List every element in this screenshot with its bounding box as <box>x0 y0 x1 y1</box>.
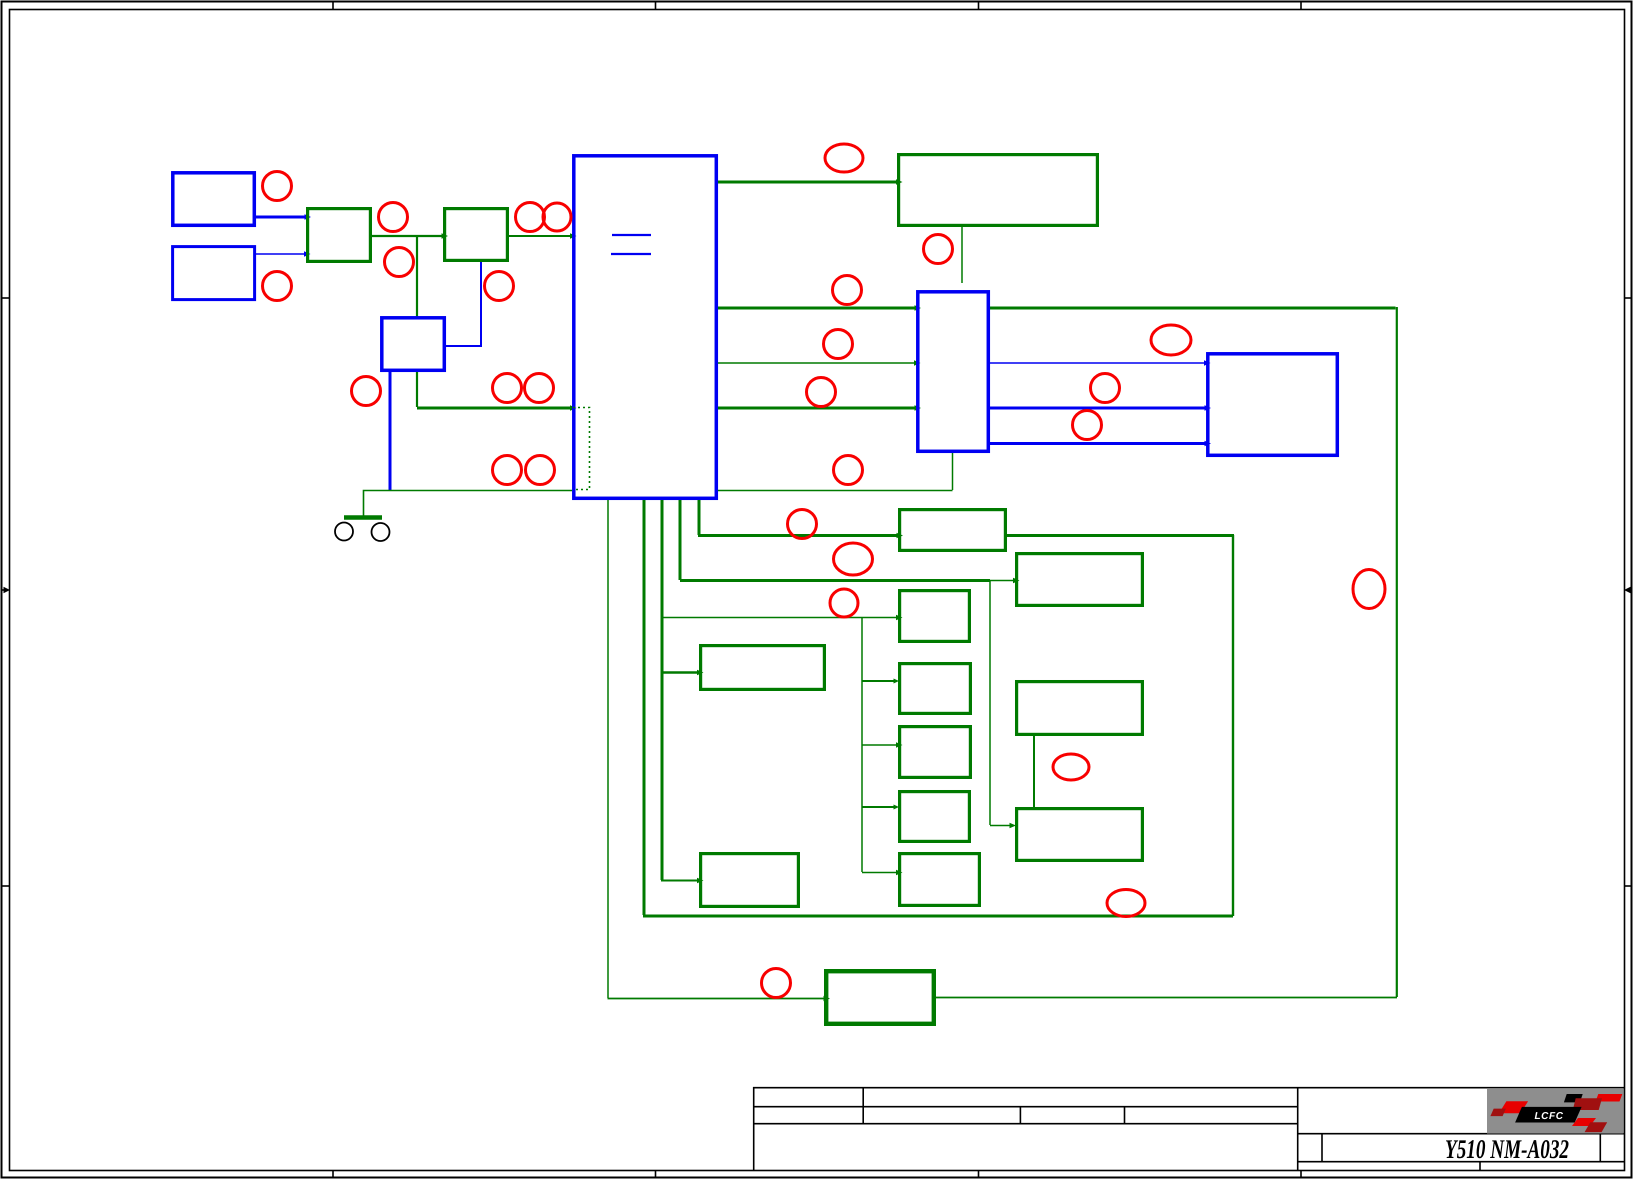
red highlight ellipse 20 <box>834 543 873 575</box>
wire E bottom down (blue) <box>389 372 392 491</box>
green box G4 <box>701 646 825 690</box>
wire mid to right box y407 (blue) <box>990 407 1206 410</box>
title block logo row bottom line <box>1298 1133 1625 1135</box>
green box D <box>445 209 508 261</box>
title block divider x1600 <box>1599 1134 1601 1162</box>
frame tick top 1 <box>332 2 334 10</box>
stub x862 to G5 (green) <box>862 680 895 682</box>
logo black LCFC parallelogram <box>1515 1107 1582 1123</box>
red highlight circle 19 <box>788 510 817 539</box>
main chip (large blue box) <box>574 156 717 499</box>
red highlight circle 3 <box>379 203 408 232</box>
frame tick top 2 <box>655 2 657 10</box>
red highlight circle 4 <box>385 248 414 277</box>
wire y617 to G3 (green thin) <box>662 617 898 619</box>
stub x990 to G9 (green, arrow) <box>990 825 1010 827</box>
red highlight circle 21 <box>830 589 858 617</box>
green box G11 <box>900 854 980 906</box>
wire mid box to right loop y308 (green) <box>990 307 1396 310</box>
frame tick right 1 <box>1625 297 1633 299</box>
logo red parallelogram lower mid <box>1572 1118 1596 1126</box>
wire y535 to G1 (green) <box>698 534 898 537</box>
red highlight circle 2 <box>263 272 292 301</box>
wire chip to mid box thin y363 (green) <box>718 362 916 364</box>
wire through E down (green) <box>416 372 418 407</box>
frame tick bottom 2 <box>655 1171 657 1178</box>
stub x862 to G11 (green) <box>862 872 898 874</box>
green box G5 <box>900 664 971 714</box>
wire D to chip (green) <box>509 235 572 237</box>
red highlight circle 1 <box>263 172 292 201</box>
red highlight circle 16 <box>1091 374 1120 403</box>
frame tick bottom 1 <box>332 1171 334 1178</box>
title block text row bottom line <box>1298 1161 1625 1163</box>
green box G9 <box>1017 809 1143 861</box>
chip bottom vertical x608 (green thin) <box>607 500 609 998</box>
loop bottom right segment (green) <box>936 997 1397 999</box>
red highlight circle pair 7a <box>516 203 545 232</box>
wire D bottom to E right (blue) <box>446 262 481 346</box>
red highlight circle pair 8b <box>525 374 554 403</box>
blue mid box <box>918 292 989 452</box>
wire y580 to G2 (green) <box>680 579 990 582</box>
green box G8 <box>1017 682 1143 735</box>
frame tick left 1 <box>2 297 10 299</box>
frame tick top 4 <box>1300 2 1302 10</box>
red highlight circle 17 <box>1073 411 1102 440</box>
chip bottom vertical x644 + inner loop bottom (green) <box>643 500 646 915</box>
title block divider x863 <box>862 1087 864 1124</box>
connector G8 to G9 (green) <box>1033 736 1035 807</box>
frame tick left 2 <box>2 885 10 887</box>
green box bottom (battery) <box>826 971 934 1024</box>
logo dark red parallelogram right <box>1573 1098 1602 1110</box>
vertical x862 (green thin) <box>861 617 863 872</box>
wire chip to top green box (green) <box>718 181 898 184</box>
blue box B (below A) <box>173 247 255 300</box>
red highlight ellipse 23 <box>1053 754 1089 780</box>
stub x662 to G4 (green) <box>662 671 698 673</box>
frame tick bottom 4 <box>1300 1171 1302 1178</box>
red highlight circle pair 8a <box>493 374 522 403</box>
red highlight ellipse 24 <box>1107 890 1145 917</box>
logo dark red parallelogram lower right <box>1585 1122 1608 1132</box>
stub x862 to G6 (green) <box>862 744 898 746</box>
title block divider x1124 <box>1124 1107 1126 1124</box>
svg-text:LCFC: LCFC <box>1534 1111 1563 1122</box>
blue box right <box>1208 354 1338 456</box>
svg-text:Y510 NM-A032: Y510 NM-A032 <box>1445 1134 1569 1164</box>
stub mid box bottom (green) <box>952 453 954 490</box>
bottom wire y998 left segment (green) <box>608 998 825 1000</box>
red highlight ellipse 14 <box>1151 325 1191 355</box>
wire mid to right box thin y363 (blue) <box>990 362 1206 364</box>
chip bottom vertical x699 (green) <box>698 500 701 535</box>
green box G10 <box>701 854 799 907</box>
logo red parallelogram left <box>1499 1101 1528 1113</box>
loop right vertical (green) <box>1396 307 1398 997</box>
wire junction down to E (green vertical) <box>416 236 418 317</box>
red highlight circle 5 <box>485 272 514 301</box>
green box G7 <box>900 792 970 842</box>
chip equal-sign mark line 2 <box>611 253 651 255</box>
stub from top green box down (green) <box>961 227 963 283</box>
frame tick top 3 <box>978 2 980 10</box>
title block row line 1 left <box>753 1106 1298 1108</box>
green box top-right <box>899 155 1098 226</box>
inner loop right vertical (green) <box>1232 535 1234 916</box>
red highlight circle pair 7b <box>543 203 571 231</box>
wire A to C (blue thick) <box>256 216 306 219</box>
frame arrow left <box>2 589 5 591</box>
title block left edge <box>753 1087 755 1170</box>
title block outline top <box>753 1087 1625 1089</box>
frame tick bottom 3 <box>978 1171 980 1178</box>
red highlight circle 15 <box>807 378 836 407</box>
red highlight circle pair 9b <box>526 456 555 485</box>
wire E to chip at y407 (green) <box>417 407 572 410</box>
red highlight circle 25 <box>762 969 791 998</box>
title block divider x1020 <box>1019 1107 1021 1124</box>
stub x862 to G7 (green) <box>862 806 895 808</box>
chip equal-sign mark line 1 <box>612 234 651 236</box>
dotted highlight box on chip lower-left <box>573 408 590 490</box>
logo black parallelogram top <box>1564 1094 1583 1102</box>
red highlight circle 13 <box>824 330 853 359</box>
wire mid to right box y443 (blue) <box>990 442 1206 445</box>
red highlight circle pair 9a <box>493 456 522 485</box>
stub x662 to G10 (green) <box>661 880 699 882</box>
wire ground run to chip (green) <box>364 491 573 517</box>
green box G6 <box>900 727 971 778</box>
chip bottom vertical x680 (green) <box>679 500 682 580</box>
ground pad circle 1 (black) <box>335 523 353 541</box>
red highlight ellipse 22 (tall) <box>1353 570 1385 609</box>
wire chip to mid box y407 (green) <box>718 407 916 410</box>
green box G3 <box>900 591 970 642</box>
logo red parallelogram top right <box>1596 1094 1623 1102</box>
blue box E <box>382 318 445 371</box>
red highlight circle 6 <box>352 377 381 406</box>
LCFC logo gray background <box>1487 1089 1624 1134</box>
green box G1 <box>900 510 1006 551</box>
red highlight circle 12 <box>833 276 862 305</box>
title block divider x1480 bottom row <box>1479 1162 1481 1171</box>
green box G2 <box>1017 554 1143 606</box>
frame tick right 2 <box>1625 885 1633 887</box>
title block divider x1322 <box>1321 1134 1323 1162</box>
wire B to C (blue thin) <box>256 253 306 255</box>
vertical x990 (green thin) <box>989 580 991 825</box>
blue box A (top-left) <box>173 173 255 226</box>
frame arrow right <box>1630 589 1633 591</box>
ground bar <box>344 515 382 520</box>
inner loop top segment to G1 (green) <box>1007 534 1234 537</box>
chip bottom vertical x662 (green) <box>661 500 664 880</box>
green box C <box>308 209 371 262</box>
ground pad circle 2 (black) <box>372 523 390 541</box>
title block center divider <box>1297 1087 1299 1170</box>
wire chip to mid box y308 (green) <box>718 307 916 310</box>
red highlight circle 10 <box>924 235 953 264</box>
wire C to D (green) <box>372 235 443 237</box>
title block row line 2 left <box>753 1123 1298 1125</box>
logo dark red parallelogram left <box>1490 1109 1506 1117</box>
red highlight ellipse 11 <box>825 144 863 172</box>
red highlight circle 18 <box>834 456 863 485</box>
wire mid box bottom to chip y490 (green) <box>718 490 953 492</box>
